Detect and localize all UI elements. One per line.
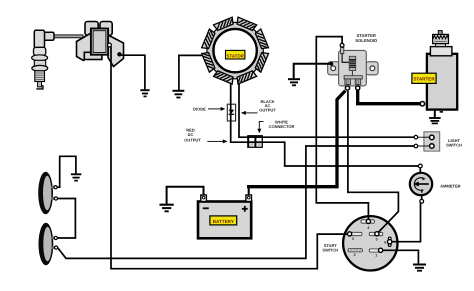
ammeter top terminal stem and bullet <box>418 164 422 173</box>
start switch slot 4 <box>361 220 375 223</box>
start switch terminal numbers <box>352 226 387 258</box>
svg-text:3: 3 <box>352 237 354 241</box>
light switch lead bullets and terminals <box>414 135 434 148</box>
svg-text:SWITCH: SWITCH <box>446 143 462 148</box>
svg-text:OUTPUT: OUTPUT <box>184 137 201 142</box>
svg-text:4: 4 <box>367 226 369 230</box>
start switch terminal 6 <box>388 237 392 246</box>
wire: stator common lead to ground <box>179 55 210 90</box>
wire: battery negative to ground <box>167 187 204 204</box>
wire: black AC output (stator to light switch upper) <box>239 72 414 137</box>
svg-text:STATOR: STATOR <box>227 53 245 58</box>
wire: lamp-to-lamp link <box>57 199 76 239</box>
solenoid trigger terminal stack <box>340 43 344 53</box>
solenoid stud block left <box>345 79 351 85</box>
wire: coil kill lead to start switch terminal 3 <box>111 47 350 269</box>
starter label <box>412 73 436 83</box>
svg-text:OUTPUT: OUTPUT <box>259 108 276 113</box>
svg-text:BATTERY: BATTERY <box>213 219 234 224</box>
starter motor M1 body <box>427 54 457 110</box>
starter motor mounting foot <box>440 111 443 113</box>
wire: starter motor to ground <box>434 110 436 118</box>
ammeter M2 body <box>410 173 432 195</box>
stator label <box>226 50 245 59</box>
solenoid ear ring terminal blob <box>329 62 333 66</box>
svg-text:SOLENOID: SOLENOID <box>355 38 377 43</box>
ammeter bottom terminal stem and bullet <box>420 195 424 203</box>
stator ring <box>207 22 263 78</box>
solenoid stud terminal right <box>356 86 360 90</box>
ground (headlights) <box>71 174 81 180</box>
label DIODE with arrow <box>193 107 225 112</box>
battery negative post <box>201 195 207 202</box>
ground (starter motor) <box>429 118 441 123</box>
svg-text:SWITCH: SWITCH <box>322 248 338 253</box>
svg-text:STARTER: STARTER <box>413 77 435 82</box>
light switch SW1 body <box>424 132 440 151</box>
ignition coil T1 (magneto armature) <box>77 22 124 67</box>
start switch slot 1 <box>369 249 383 252</box>
wire: red DC output (stator, diode, connector, to ammeter) <box>231 72 419 166</box>
ground (battery) <box>160 205 174 212</box>
battery plus sign <box>242 206 248 212</box>
ground (solenoid) <box>288 79 300 85</box>
wire: coil to ground <box>119 55 144 89</box>
diode D1 symbol <box>229 110 235 115</box>
starter motor pinion gear <box>433 31 449 44</box>
headlight L1 (upper) <box>38 172 54 214</box>
label BLACK AC OUTPUT with arrow <box>241 99 276 115</box>
ground (stator) <box>173 91 185 98</box>
start switch slot 2 (hatched, unused) <box>348 249 362 252</box>
ground (start switch) <box>413 265 426 271</box>
svg-text:AMMETER: AMMETER <box>440 183 460 188</box>
wire: ammeter bottom to start switch terminal 6 <box>392 203 421 241</box>
stator pole shoes (hatched) <box>235 17 256 31</box>
svg-text:2: 2 <box>354 253 356 257</box>
start switch slot 5 <box>369 232 383 235</box>
spark plug wire (plug to coil) <box>50 35 83 38</box>
battery label <box>210 216 237 225</box>
headlight terminals <box>54 186 58 250</box>
starter motor top cap <box>430 47 452 56</box>
coil ground dot terminal <box>117 52 121 56</box>
battery BT1 body <box>198 202 251 239</box>
label RED DC OUTPUT with arrow <box>184 128 227 144</box>
wire: solenoid stud feed to start switch terminal 5 <box>348 91 399 234</box>
coil kill terminal <box>108 43 112 47</box>
start switch slot 3 <box>349 232 362 235</box>
white connector J1 <box>247 135 263 148</box>
label STARTER SOLENOID <box>355 33 377 43</box>
battery minus sign <box>203 207 209 209</box>
solenoid stud block right <box>355 79 361 85</box>
svg-text:6: 6 <box>384 241 386 245</box>
diode D1 package <box>227 104 235 121</box>
wire: solenoid trigger (terminal 4 of start switch) <box>316 37 368 220</box>
solenoid stud terminal left <box>345 86 349 90</box>
solenoid plunger <box>351 71 353 76</box>
wire: solenoid mounting ear to ground <box>294 64 332 79</box>
label LIGHT SWITCH <box>446 138 462 148</box>
start switch terminal circles <box>348 219 383 252</box>
headlight L2 (lower) <box>39 223 55 265</box>
wire: solenoid to starter cable <box>358 91 421 104</box>
svg-text:CONNECTOR: CONNECTOR <box>269 124 295 129</box>
solenoid contact bar <box>344 76 362 79</box>
spark plug PL1 <box>32 30 54 89</box>
start switch SW2 body <box>343 216 397 270</box>
starter motor cable terminal <box>420 102 424 106</box>
wire: battery positive cable to solenoid stud <box>248 187 250 195</box>
starter solenoid right mounting ear <box>366 62 378 75</box>
ground (ignition coil) <box>140 90 149 96</box>
label START SWITCH <box>322 243 338 253</box>
starter solenoid left mounting ear <box>328 62 340 75</box>
svg-text:1: 1 <box>375 253 377 257</box>
svg-text:DIODE: DIODE <box>193 107 206 112</box>
starter motor collar <box>436 43 446 46</box>
starter solenoid K1 body <box>339 50 367 86</box>
solenoid internal trigger wire <box>342 54 349 63</box>
wire: headlights feed to light switch lower <box>58 146 414 258</box>
wire: start switch terminal 1 to ground <box>381 250 419 263</box>
solenoid coil winding <box>349 56 356 70</box>
svg-text:5: 5 <box>376 237 378 241</box>
label WHITE CONNECTOR with arrow <box>257 120 294 134</box>
wire: headlight ground loop <box>57 156 76 187</box>
battery positive post <box>246 195 252 202</box>
